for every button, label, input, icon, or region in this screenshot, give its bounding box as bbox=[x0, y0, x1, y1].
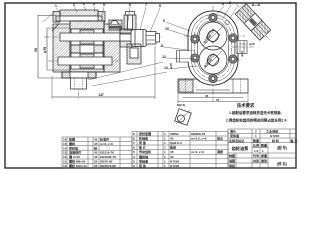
svg-text:4: 4 bbox=[133, 155, 135, 159]
svg-text:1: 1 bbox=[164, 164, 166, 168]
filler plug dark band bbox=[109, 26, 122, 29]
svg-text:3: 3 bbox=[83, 2, 85, 6]
svg-text:16: 16 bbox=[63, 138, 67, 142]
svg-text:泵体盖: 泵体盖 bbox=[230, 133, 239, 138]
svg-text:(图 号): (图 号) bbox=[277, 145, 287, 150]
left inlet port flange bbox=[177, 51, 190, 63]
lower gear bbox=[71, 53, 103, 69]
svg-text:2: 2 bbox=[255, 130, 257, 134]
horizontal centerline lower gear bbox=[184, 59, 242, 61]
cover plate edge obround bbox=[192, 14, 235, 81]
svg-text:传动齿轮: 传动齿轮 bbox=[138, 149, 151, 154]
svg-text:4306a: 4306a bbox=[170, 132, 179, 136]
svg-text:密封垫圆: 密封垫圆 bbox=[138, 131, 151, 136]
svg-text:45: 45 bbox=[94, 142, 98, 146]
svg-text:6: 6 bbox=[129, 3, 131, 7]
svg-text:1: 1 bbox=[262, 149, 264, 153]
svg-text:轮轴垫: 轮轴垫 bbox=[139, 136, 149, 141]
svg-text:描图: 描图 bbox=[229, 158, 235, 163]
flange nut left bbox=[62, 72, 70, 78]
left cover section bbox=[53, 24, 70, 72]
svg-text:4: 4 bbox=[222, 2, 224, 6]
svg-text:纸: 纸 bbox=[94, 145, 98, 150]
svg-text:45: 45 bbox=[205, 94, 209, 98]
valve cap core bbox=[128, 15, 133, 30]
svg-text:1.装配后要求运转灵活无卡死现象,: 1.装配后要求运转灵活无卡死现象, bbox=[229, 110, 282, 115]
svg-text:2: 2 bbox=[73, 3, 75, 7]
body web hatch left bbox=[71, 45, 80, 53]
svg-text:45: 45 bbox=[170, 137, 174, 141]
svg-text:1: 1 bbox=[164, 146, 166, 150]
svg-text:N(2:1): N(2:1) bbox=[177, 103, 186, 107]
flange nut right bbox=[88, 72, 96, 78]
svg-text:标准件: 标准件 bbox=[99, 137, 109, 142]
pin hole top right bbox=[225, 20, 229, 24]
svg-text:11: 11 bbox=[63, 160, 67, 164]
svg-text:GB5679-86: GB5679-86 bbox=[100, 164, 116, 168]
svg-text:HT200: HT200 bbox=[170, 159, 179, 163]
body web hatch right bbox=[94, 45, 103, 53]
svg-text:m=2.5, z=9: m=2.5, z=9 bbox=[191, 137, 207, 141]
svg-text:147: 147 bbox=[98, 93, 104, 97]
svg-text:1: 1 bbox=[164, 137, 166, 141]
svg-text:齿轮油泵: 齿轮油泵 bbox=[232, 145, 250, 152]
svg-text:HT200: HT200 bbox=[270, 134, 279, 138]
svg-text:6: 6 bbox=[133, 146, 135, 150]
svg-text:(校 名): (校 名) bbox=[277, 161, 287, 166]
upper gear addendum circle bbox=[199, 22, 227, 50]
svg-text:HT200: HT200 bbox=[170, 164, 179, 168]
svg-text:数量: 数量 bbox=[252, 138, 259, 143]
svg-text:m=3, z=9: m=3, z=9 bbox=[100, 142, 113, 146]
base of pump bbox=[178, 78, 248, 103]
svg-text:7: 7 bbox=[145, 3, 147, 7]
left foot local section hatch bbox=[179, 80, 193, 92]
detail circle bbox=[178, 115, 185, 122]
upper shaft bbox=[60, 33, 131, 41]
leader lines from flange bbox=[88, 62, 163, 80]
svg-text:组合: 组合 bbox=[217, 136, 224, 141]
svg-text:10: 10 bbox=[63, 164, 67, 168]
relief valve cap column bbox=[124, 15, 136, 30]
svg-text:1: 1 bbox=[164, 159, 166, 163]
svg-text:1: 1 bbox=[164, 155, 166, 159]
svg-text:1: 1 bbox=[164, 132, 166, 136]
lower shaft circle bbox=[208, 55, 219, 66]
top through-stud bbox=[56, 16, 102, 21]
bottom dim 147 bbox=[52, 96, 155, 98]
svg-text:泵 盖: 泵 盖 bbox=[139, 140, 146, 145]
svg-text:GB70-85: GB70-85 bbox=[100, 160, 113, 164]
svg-text:15: 15 bbox=[63, 142, 67, 146]
pump body section bbox=[70, 21, 104, 72]
valve cap top bbox=[126, 12, 135, 16]
svg-text:A—A: A—A bbox=[252, 3, 261, 7]
bolt through plates bbox=[244, 13, 262, 31]
svg-text:φ78: φ78 bbox=[43, 47, 47, 53]
gland nut hatched bbox=[120, 29, 132, 47]
svg-text:1:2: 1:2 bbox=[254, 149, 259, 153]
svg-text:键齿轴: 键齿轴 bbox=[139, 154, 148, 159]
svg-text:制图: 制图 bbox=[229, 153, 235, 158]
svg-text:2.两齿轮轮齿间的喂合间隙占齿长同1:4.: 2.两齿轮轮齿间的喂合间隙占齿长同1:4. bbox=[226, 118, 287, 123]
svg-text:垫 片: 垫 片 bbox=[139, 145, 146, 150]
svg-text:9: 9 bbox=[133, 132, 135, 136]
svg-text:螺栓 M12×11: 螺栓 M12×11 bbox=[69, 163, 87, 168]
section plates hatched bbox=[235, 4, 271, 41]
svg-text:98: 98 bbox=[34, 48, 38, 52]
svg-text:共张: 共张 bbox=[253, 158, 260, 163]
lower gear hub hatch bbox=[80, 54, 94, 68]
svg-text:密封垫: 密封垫 bbox=[68, 145, 79, 150]
svg-text:φ15: φ15 bbox=[169, 63, 173, 69]
vertical centerline front view bbox=[212, 6, 214, 101]
gear chamber wall bbox=[198, 20, 229, 75]
lower keyway rect rotated bbox=[207, 54, 220, 67]
packing cap bbox=[131, 30, 147, 47]
lower gear addendum circle bbox=[199, 46, 227, 74]
right cover section bbox=[104, 24, 120, 72]
svg-text:m=3, z=9: m=3, z=9 bbox=[191, 150, 204, 154]
svg-text:技术要求: 技术要求 bbox=[237, 102, 255, 109]
filler plug dome bbox=[111, 21, 118, 25]
svg-text:7: 7 bbox=[133, 141, 135, 145]
centerline upper shaft bbox=[44, 36, 162, 38]
valve housing block lower right bbox=[127, 44, 141, 64]
title body inner lines bbox=[228, 152, 296, 154]
upper gear hub hatch bbox=[80, 30, 94, 44]
svg-text:35: 35 bbox=[94, 160, 98, 164]
svg-text:8: 8 bbox=[159, 4, 161, 8]
svg-text:数量: 数量 bbox=[260, 143, 267, 148]
svg-text:13: 13 bbox=[164, 66, 168, 70]
keyway rect rotated bbox=[206, 29, 220, 43]
vertical dim 98 bbox=[37, 15, 39, 78]
svg-text:GB609-76: GB609-76 bbox=[191, 132, 205, 136]
svg-text:5: 5 bbox=[103, 3, 105, 7]
upper gear bbox=[71, 29, 103, 45]
callout numbers top of section view bbox=[43, 6, 160, 32]
svg-text:14: 14 bbox=[63, 146, 67, 150]
svg-text:油堵组件: 油堵组件 bbox=[69, 150, 81, 155]
svg-text:Qφ6-6-3: Qφ6-6-3 bbox=[170, 141, 182, 145]
top stud boss hatched bbox=[60, 10, 98, 16]
svg-text:φ24: φ24 bbox=[240, 51, 244, 57]
svg-text:螺桔 M6×16: 螺桔 M6×16 bbox=[69, 159, 86, 164]
shaft end washer bbox=[156, 34, 160, 43]
svg-text:1: 1 bbox=[255, 134, 257, 138]
svg-text:10: 10 bbox=[165, 27, 169, 31]
upper shaft circle bbox=[208, 31, 219, 42]
body bottom band hatch bbox=[70, 67, 104, 72]
stud nut right bbox=[98, 12, 105, 23]
svg-text:比例: 比例 bbox=[253, 143, 259, 148]
svg-text:名称及标记: 名称及标记 bbox=[229, 138, 244, 143]
svg-text:审核: 审核 bbox=[229, 163, 236, 168]
base dims bbox=[183, 97, 243, 99]
svg-text:泵轴套: 泵轴套 bbox=[139, 158, 149, 163]
svg-text:8: 8 bbox=[133, 137, 135, 141]
svg-text:2: 2 bbox=[133, 164, 135, 168]
horizontal centerline upper gear bbox=[184, 35, 245, 37]
svg-text:1: 1 bbox=[55, 4, 57, 8]
svg-text:1: 1 bbox=[164, 141, 166, 145]
svg-text:3: 3 bbox=[133, 159, 135, 163]
svg-text:9: 9 bbox=[163, 19, 165, 23]
svg-text:45: 45 bbox=[94, 138, 98, 142]
bolts on front cover bbox=[191, 13, 237, 82]
svg-text:代号: 代号 bbox=[252, 153, 259, 158]
svg-text:材 料: 材 料 bbox=[272, 138, 280, 143]
svg-text:堵头: 堵头 bbox=[230, 129, 236, 134]
svg-text:第张: 第张 bbox=[261, 158, 268, 163]
svg-text:13: 13 bbox=[63, 151, 67, 155]
vertical dim phi78 bbox=[46, 28, 48, 70]
svg-text:5: 5 bbox=[229, 1, 231, 5]
svg-text:12: 12 bbox=[162, 55, 166, 59]
border frame bbox=[5, 3, 296, 168]
svg-text:1: 1 bbox=[164, 150, 166, 154]
svg-text:泵 体: 泵 体 bbox=[139, 163, 147, 168]
centerline bottom flange bbox=[78, 66, 80, 99]
bottom flange step2 bbox=[71, 78, 87, 89]
svg-text:质量: 质量 bbox=[261, 153, 267, 158]
svg-text:φ16: φ16 bbox=[249, 42, 255, 46]
svg-text:5: 5 bbox=[133, 150, 135, 154]
lower shaft bbox=[58, 57, 112, 65]
svg-text:45: 45 bbox=[94, 155, 98, 159]
bolt circle dash-dot bbox=[195, 18, 232, 79]
callouts top right bbox=[217, 5, 237, 20]
filler plug boss bbox=[109, 20, 122, 30]
callouts left of front view bbox=[164, 22, 198, 69]
right outlet port flange bbox=[236, 41, 247, 54]
svg-text:45: 45 bbox=[170, 155, 174, 159]
svg-text:4: 4 bbox=[93, 2, 95, 6]
svg-text:12: 12 bbox=[63, 155, 67, 159]
centerline of section bbox=[237, 4, 270, 39]
svg-text:备 注: 备 注 bbox=[290, 138, 298, 143]
svg-text:70: 70 bbox=[216, 98, 220, 102]
stud nut left bbox=[53, 12, 60, 23]
svg-text:键 4×10: 键 4×10 bbox=[69, 154, 80, 159]
svg-text:45: 45 bbox=[94, 151, 98, 155]
hex nut on shaft end bbox=[146, 32, 156, 45]
svg-text:35: 35 bbox=[94, 164, 98, 168]
gland bore bbox=[120, 34, 132, 41]
svg-text:垫圆: 垫圆 bbox=[69, 137, 75, 142]
bottom flange step1 bbox=[62, 72, 96, 78]
svg-text:工业用纸: 工业用纸 bbox=[266, 129, 279, 134]
svg-text:调质: 调质 bbox=[217, 149, 223, 154]
svg-text:45: 45 bbox=[170, 150, 174, 154]
svg-text:螺树: 螺树 bbox=[69, 141, 75, 146]
centerline lower shaft bbox=[48, 60, 118, 62]
svg-text:11: 11 bbox=[160, 44, 164, 48]
svg-text:板纸: 板纸 bbox=[170, 145, 177, 150]
pump body obround outline bbox=[188, 11, 238, 85]
svg-text:GB1096-79: GB1096-79 bbox=[100, 155, 116, 159]
svg-text:GB119-76: GB119-76 bbox=[100, 151, 114, 155]
body top band hatch bbox=[70, 21, 104, 29]
